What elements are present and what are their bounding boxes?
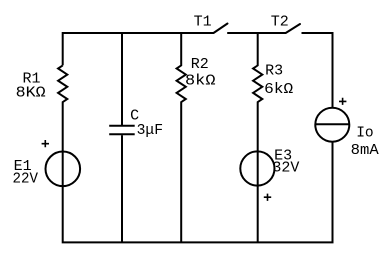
svg-text:R3: R3 <box>265 62 283 79</box>
svg-text:3μF: 3μF <box>137 122 164 139</box>
svg-text:8kΩ: 8kΩ <box>185 73 216 90</box>
svg-text:R2: R2 <box>191 56 209 73</box>
svg-text:T1: T1 <box>194 14 212 31</box>
svg-text:32V: 32V <box>272 159 299 176</box>
svg-text:T2: T2 <box>271 14 289 31</box>
svg-text:22V: 22V <box>13 171 39 188</box>
svg-text:8KΩ: 8KΩ <box>16 85 46 102</box>
svg-text:8mA: 8mA <box>351 142 379 159</box>
svg-text:6kΩ: 6kΩ <box>264 81 293 98</box>
svg-text:Io: Io <box>356 125 374 142</box>
